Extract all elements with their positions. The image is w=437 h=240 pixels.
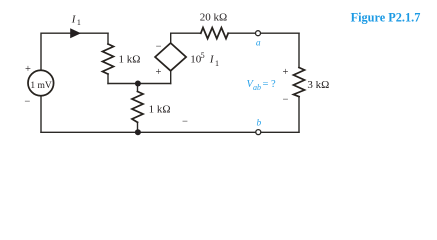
voltage source V1 circle (28, 70, 54, 96)
current arrow I1 (70, 28, 81, 38)
svg-text:ab: ab (253, 83, 261, 92)
node a terminal circle (256, 31, 261, 36)
wire R1 bottom lead (107, 74, 109, 84)
svg-text:= ?: = ? (263, 79, 277, 90)
svg-text:1: 1 (215, 59, 219, 68)
svg-text:Figure P2.1.7: Figure P2.1.7 (351, 10, 421, 24)
svg-text:I: I (209, 54, 215, 66)
wire R1 top lead (107, 33, 109, 44)
svg-text:20 kΩ: 20 kΩ (200, 12, 227, 24)
svg-text:+: + (25, 64, 31, 75)
svg-text:+: + (155, 67, 161, 78)
svg-text:I: I (71, 14, 77, 26)
svg-text:1 kΩ: 1 kΩ (149, 103, 171, 115)
svg-text:b: b (257, 119, 262, 129)
svg-text:3 kΩ: 3 kΩ (307, 79, 329, 91)
junction dot bottom node (135, 129, 141, 135)
dependent source E1 diamond (155, 43, 186, 71)
resistor R2 1 kOhm zigzag (132, 92, 143, 123)
wire R2 top lead (137, 84, 139, 92)
resistor R4 3 kOhm zigzag (294, 68, 305, 97)
resistor R3 20 kOhm zigzag (201, 28, 228, 39)
wire right vertical above R4 3k (298, 33, 300, 67)
wire middle horizontal from R1 to dependent source branch (108, 83, 171, 85)
svg-text:5: 5 (201, 51, 205, 60)
resistor R1 1 kOhm zigzag (103, 44, 114, 74)
wire right vertical below R4 3k (298, 97, 300, 133)
wire dependent source top stub (170, 33, 172, 43)
junction dot middle node (135, 81, 141, 87)
wire R2 bottom lead (137, 122, 139, 132)
wire top horizontal from dependent source to R3 20k (171, 32, 201, 34)
wire left vertical below source V1 (40, 96, 42, 133)
svg-text:1: 1 (77, 18, 81, 27)
wire left vertical above source V1 and top-left horizontal to R1 (41, 33, 108, 70)
svg-text:−: − (156, 42, 162, 53)
svg-text:1 kΩ: 1 kΩ (119, 54, 141, 66)
svg-text:−: − (283, 95, 289, 106)
node b terminal circle (256, 130, 261, 135)
svg-text:1 mV: 1 mV (30, 81, 52, 91)
svg-text:−: − (24, 96, 30, 107)
wire top horizontal from R3 through node a to right corner (228, 32, 299, 34)
svg-text:−: − (182, 117, 188, 128)
svg-text:+: + (282, 67, 288, 78)
wire dependent source bottom stub (170, 71, 172, 84)
wire bottom horizontal (41, 131, 299, 133)
svg-text:a: a (256, 38, 261, 48)
